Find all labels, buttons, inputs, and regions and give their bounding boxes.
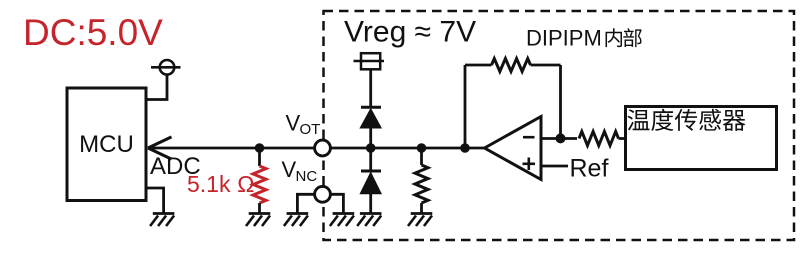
wire: R1 to ground bbox=[258, 203, 261, 214]
wire: VNC left to ground bbox=[297, 194, 315, 213]
svg-text:Vreg ≈ 7V: Vreg ≈ 7V bbox=[344, 15, 476, 48]
wire: non-inverting input (Ref) bbox=[541, 165, 568, 168]
svg-text:MCU: MCU bbox=[79, 131, 134, 158]
wire: D1 to main junction bbox=[369, 128, 372, 148]
terminal VNC bbox=[315, 186, 331, 202]
node: junction main wire / R1 bbox=[255, 143, 265, 153]
svg-text:Ref: Ref bbox=[570, 155, 609, 183]
label: temperature sensor (CJK) bbox=[627, 109, 745, 131]
temperature sensor block bbox=[626, 107, 777, 170]
resistor R1 5.1k ohm (red) bbox=[253, 166, 266, 203]
wire: feedback right vertical bbox=[559, 65, 562, 139]
wire: junction to R2 bbox=[420, 148, 423, 165]
node: junction main wire / R2 bbox=[417, 143, 427, 153]
terminal VOT bbox=[315, 140, 331, 156]
resistor R4 (sensor series) bbox=[579, 132, 619, 146]
resistor R3 (feedback) bbox=[492, 59, 531, 72]
label VNC bbox=[282, 157, 318, 185]
wire: VNC right to ground bbox=[330, 194, 343, 213]
arrowhead into MCU (ADC input) bbox=[148, 137, 172, 159]
ground (VNC right) bbox=[330, 214, 354, 227]
resistor R2 bbox=[415, 165, 428, 203]
label DIPIPM internal bbox=[526, 26, 642, 51]
svg-text:V: V bbox=[286, 111, 301, 136]
5V supply terminal bbox=[151, 60, 181, 75]
ground (D2) bbox=[357, 214, 381, 227]
svg-text:OT: OT bbox=[300, 121, 321, 138]
node: junction inverting input / feedback bbox=[556, 133, 566, 143]
node: junction diodes / main wire bbox=[366, 143, 376, 153]
wire: inverting input bbox=[541, 137, 577, 140]
diode D1 (clamp to Vreg) bbox=[360, 107, 381, 128]
MCU block U1 bbox=[67, 88, 146, 201]
wire: feedback top right bbox=[531, 64, 561, 67]
wire: R4 to sensor box bbox=[619, 137, 627, 140]
Vreg supply symbol (fuse) bbox=[354, 53, 385, 69]
svg-text:V: V bbox=[282, 157, 297, 182]
ground (R2) bbox=[408, 214, 432, 227]
op-amp U2 bbox=[485, 117, 542, 180]
ground (MCU) bbox=[150, 214, 174, 227]
wire: R2 to ground bbox=[420, 203, 423, 214]
ground (R1) bbox=[246, 214, 270, 227]
wire: Vreg to D1 bbox=[369, 69, 372, 107]
DIPIPM internal boundary (dashed box) bbox=[324, 11, 795, 240]
svg-text:DC:5.0V: DC:5.0V bbox=[23, 12, 163, 53]
ground (VNC left) bbox=[284, 214, 308, 227]
wire: feedback left vertical bbox=[464, 65, 467, 148]
svg-text:NC: NC bbox=[296, 168, 318, 185]
wire: D2 to ground bbox=[369, 194, 372, 214]
wire: main signal net VOT bbox=[149, 147, 315, 150]
wire: MCU to ground bbox=[146, 188, 164, 214]
diode D2 (clamp to ground) bbox=[360, 171, 381, 194]
wire: junction to R1 bbox=[258, 148, 261, 166]
wire: terminal to MCU bbox=[145, 75, 167, 100]
svg-text:5.1k Ω: 5.1k Ω bbox=[187, 171, 255, 197]
wire: junction to D2 bbox=[369, 148, 372, 171]
svg-text:DIPIPM: DIPIPM bbox=[526, 26, 602, 51]
wire: feedback top left bbox=[465, 64, 492, 67]
node: junction op-amp output / feedback bbox=[460, 143, 470, 153]
label VOT bbox=[286, 111, 321, 139]
